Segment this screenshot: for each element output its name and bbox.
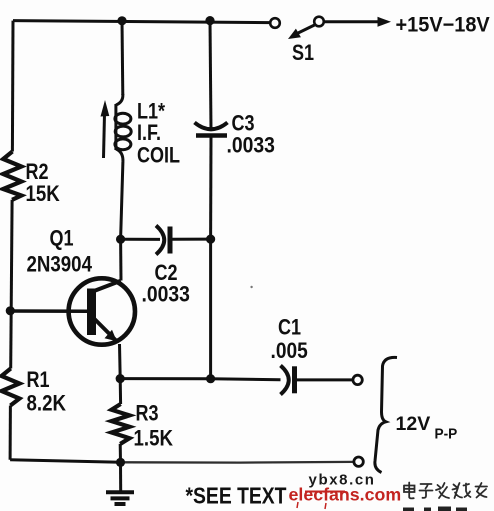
svg-text:12V: 12V xyxy=(396,413,431,435)
output terminal top xyxy=(353,375,362,384)
wire C3 to C2 row xyxy=(209,136,212,240)
wire C3 branch lower segment xyxy=(209,239,212,379)
wire L1 bottom segment xyxy=(121,162,123,239)
brace for output xyxy=(375,357,397,472)
wire left rail upper segment xyxy=(11,21,15,152)
supply arrow xyxy=(325,17,392,27)
wire emitter vertical xyxy=(118,344,122,379)
svg-text:P-P: P-P xyxy=(435,425,458,441)
label +15V-18V xyxy=(396,13,491,37)
junction dot top L1 xyxy=(117,16,126,25)
resistor R2 xyxy=(3,152,21,200)
wire output row left xyxy=(120,379,280,380)
svg-text:I.F.: I.F. xyxy=(137,121,161,145)
switch S1 blade with arrowhead xyxy=(288,25,315,39)
wire bottom rail xyxy=(10,460,353,463)
svg-text:.005: .005 xyxy=(271,339,308,364)
svg-text:S1: S1 xyxy=(292,41,314,65)
svg-text:*SEE TEXT: *SEE TEXT xyxy=(186,483,287,509)
junction dot C3 row xyxy=(206,374,215,383)
label R3 1.5K xyxy=(134,402,174,451)
wire collector vertical xyxy=(119,239,122,280)
adjustment arrow for L1 xyxy=(101,100,110,158)
svg-text:C1: C1 xyxy=(278,316,301,340)
note *SEE TEXT xyxy=(186,483,287,509)
transistor Q1 xyxy=(69,278,135,344)
svg-text:R1: R1 xyxy=(27,368,50,392)
label 12V P-P xyxy=(396,413,458,442)
bottom cut-off text xyxy=(403,507,467,511)
svg-text:C3: C3 xyxy=(232,112,255,136)
wire left rail lower segment xyxy=(9,406,12,460)
wire base lead xyxy=(10,309,88,313)
watermark elecfans.com xyxy=(289,485,402,510)
junction dot ground xyxy=(116,458,125,467)
svg-text:1.5K: 1.5K xyxy=(134,427,174,451)
label S1 xyxy=(292,41,314,65)
junction dot emitter row xyxy=(116,374,125,383)
switch S1 contact left xyxy=(270,18,280,28)
ground xyxy=(106,462,134,504)
inductor L1 xyxy=(115,94,131,162)
watermark chinese characters xyxy=(404,483,487,499)
wire C2 row right xyxy=(173,238,211,241)
svg-text:15K: 15K xyxy=(26,183,61,207)
wire C1 to output terminal xyxy=(295,378,353,381)
label R2 15K xyxy=(26,160,61,206)
junction dot base on left rail xyxy=(6,306,15,315)
svg-text:elecfans.com: elecfans.com xyxy=(289,485,402,505)
junction dot C2 right xyxy=(206,235,215,244)
svg-text:2N3904: 2N3904 xyxy=(27,253,93,277)
svg-text:R3: R3 xyxy=(136,402,159,426)
label Q1 2N3904 xyxy=(27,227,93,277)
svg-text:R2: R2 xyxy=(26,160,49,184)
switch S1 contact right xyxy=(314,17,324,27)
label C1 .005 xyxy=(271,316,308,363)
svg-text:COIL: COIL xyxy=(137,144,180,168)
capacitor C3 xyxy=(195,123,228,136)
wire C3 top segment xyxy=(210,21,211,130)
svg-text:.0033: .0033 xyxy=(142,282,190,306)
label C2 .0033 xyxy=(142,261,190,306)
wire L1 top segment xyxy=(121,21,125,95)
output terminal bottom xyxy=(354,457,363,466)
svg-text:8.2K: 8.2K xyxy=(27,392,67,416)
svg-text:+15V−18V: +15V−18V xyxy=(396,13,491,37)
wire C2 row left xyxy=(121,238,160,241)
resistor R1 xyxy=(2,369,20,406)
wire R3 bottom stub xyxy=(119,444,122,463)
wire R3 top stub xyxy=(119,379,122,404)
svg-text:Q1: Q1 xyxy=(50,227,74,251)
capacitor C1 xyxy=(281,366,295,395)
svg-text:.0033: .0033 xyxy=(227,133,275,157)
watermark ybx8.cn xyxy=(309,472,376,489)
resistor R3 xyxy=(112,404,130,444)
svg-text:L1*: L1* xyxy=(137,100,165,124)
wire left rail middle segment xyxy=(11,200,12,369)
wire top rail xyxy=(13,21,270,23)
label R1 8.2K xyxy=(27,368,67,415)
capacitor C2 xyxy=(156,226,170,255)
label C3 .0033 xyxy=(227,112,275,158)
junction dot C2 left xyxy=(116,235,125,244)
speck xyxy=(250,286,252,288)
label L1* I.F. COIL xyxy=(137,100,180,168)
junction dot top C3 xyxy=(205,16,214,25)
